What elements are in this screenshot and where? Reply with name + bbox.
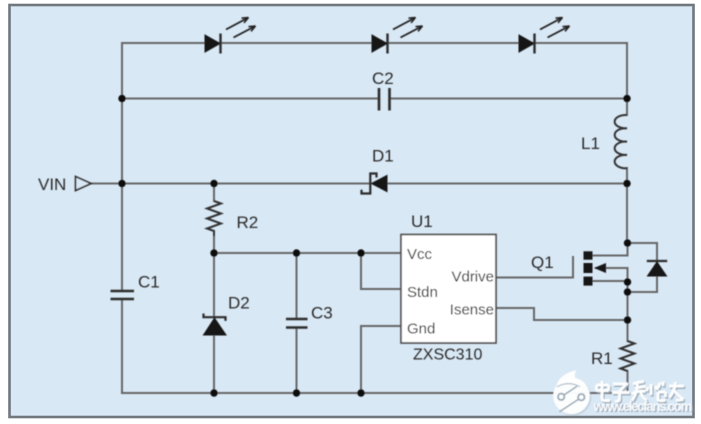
- wire: body diode loop: [628, 243, 658, 292]
- svg-text:C3: C3: [311, 304, 333, 323]
- node: Q1 drain / diode top: [624, 239, 631, 246]
- wire: top rail y=43 from left bus to right bus: [122, 42, 627, 44]
- zener diode D2: [204, 314, 227, 336]
- wire: Q1 bottom pad wire to bus: [593, 280, 628, 282]
- watermark text 电子发烧友 (stylized strokes): [598, 383, 686, 403]
- wire: C3 leads x=296.5: [296, 253, 298, 393]
- capacitor C1 plates: [111, 291, 135, 299]
- node: C3 top: [293, 249, 300, 256]
- wire: Stdn drop from Vcc rail: [361, 253, 401, 289]
- node: R2 bottom / Vcc rail: [210, 249, 217, 256]
- node: right bus / L1 bottom: [623, 180, 630, 187]
- node: D2 bottom rail: [210, 389, 217, 396]
- resistor R1 zigzag: [621, 341, 635, 371]
- svg-text:D2: D2: [228, 294, 250, 313]
- svg-text:L1: L1: [581, 134, 600, 153]
- svg-text:Vdrive: Vdrive: [451, 269, 494, 286]
- node: Gnd drop bottom rail: [357, 389, 364, 396]
- diode D1 (Schottky): [362, 174, 388, 194]
- node: left bus / VIN rail: [118, 180, 125, 187]
- VIN input terminal: [76, 177, 92, 191]
- wire: R2 leads x=214: [213, 184, 215, 254]
- watermark logo elecfans: [553, 370, 591, 415]
- wire: Vcc rail y=253 from R2 bottom to U1: [214, 252, 401, 254]
- svg-text:Gnd: Gnd: [407, 321, 435, 338]
- svg-text:C1: C1: [138, 273, 160, 292]
- wire: Gnd drop to bottom rail: [361, 326, 401, 393]
- node: left bus / C2 rail: [118, 95, 125, 102]
- wire: Isense route to sense node: [496, 308, 628, 320]
- wire: Q1 source arrow wire to bus: [596, 268, 628, 282]
- svg-text:C2: C2: [372, 69, 394, 88]
- svg-text:D1: D1: [372, 147, 394, 166]
- capacitor C2 plates: [379, 88, 390, 111]
- wire: right bus x=627 upper segment: [626, 43, 628, 243]
- wire: second rail y=98.5 with gap for C2: [122, 98, 627, 100]
- IC U1 body: [401, 235, 496, 344]
- svg-text:R1: R1: [591, 349, 613, 368]
- wire: right bus from source node down to R1: [627, 282, 629, 393]
- wire: right bus segment through Q1 drain tap: [593, 243, 628, 256]
- svg-text:Q1: Q1: [531, 253, 554, 272]
- node: right bus / C2 rail: [623, 95, 630, 102]
- body diode of Q1: [647, 261, 667, 276]
- wire: VIN rail y=183.5 with gap for D1: [91, 183, 627, 185]
- wire: D2 branch x=214: [213, 253, 215, 393]
- node: R2 top: [210, 180, 217, 187]
- node: Stdn drop: [357, 249, 364, 256]
- svg-text:U1: U1: [411, 212, 433, 231]
- LED LED2: [372, 18, 423, 54]
- LED LED3: [519, 18, 570, 54]
- node: Q1 source: [624, 278, 631, 285]
- inductor L1: [615, 115, 627, 168]
- wire: left bus x=122 (gap for C1 plates): [121, 43, 123, 393]
- svg-text:Isense: Isense: [450, 302, 494, 319]
- capacitor C3 plates: [286, 319, 308, 328]
- node: C3 bottom rail: [293, 389, 300, 396]
- svg-text:R2: R2: [237, 213, 259, 232]
- resistor R2 zigzag: [207, 201, 221, 236]
- transistor Q1: [584, 251, 628, 285]
- node: diode return: [624, 288, 631, 295]
- svg-text:Vcc: Vcc: [407, 246, 433, 263]
- node: Isense / R1 top: [624, 316, 631, 323]
- svg-text:www.elecfans.com: www.elecfans.com: [593, 399, 693, 414]
- svg-text:Stdn: Stdn: [407, 284, 438, 301]
- LED LED1: [205, 18, 256, 54]
- wire: Vdrive to Q1 gate: [496, 257, 573, 278]
- svg-text:ZXSC310: ZXSC310: [413, 347, 482, 364]
- svg-text:VIN: VIN: [38, 175, 66, 194]
- wire: bottom rail y=393: [122, 392, 628, 394]
